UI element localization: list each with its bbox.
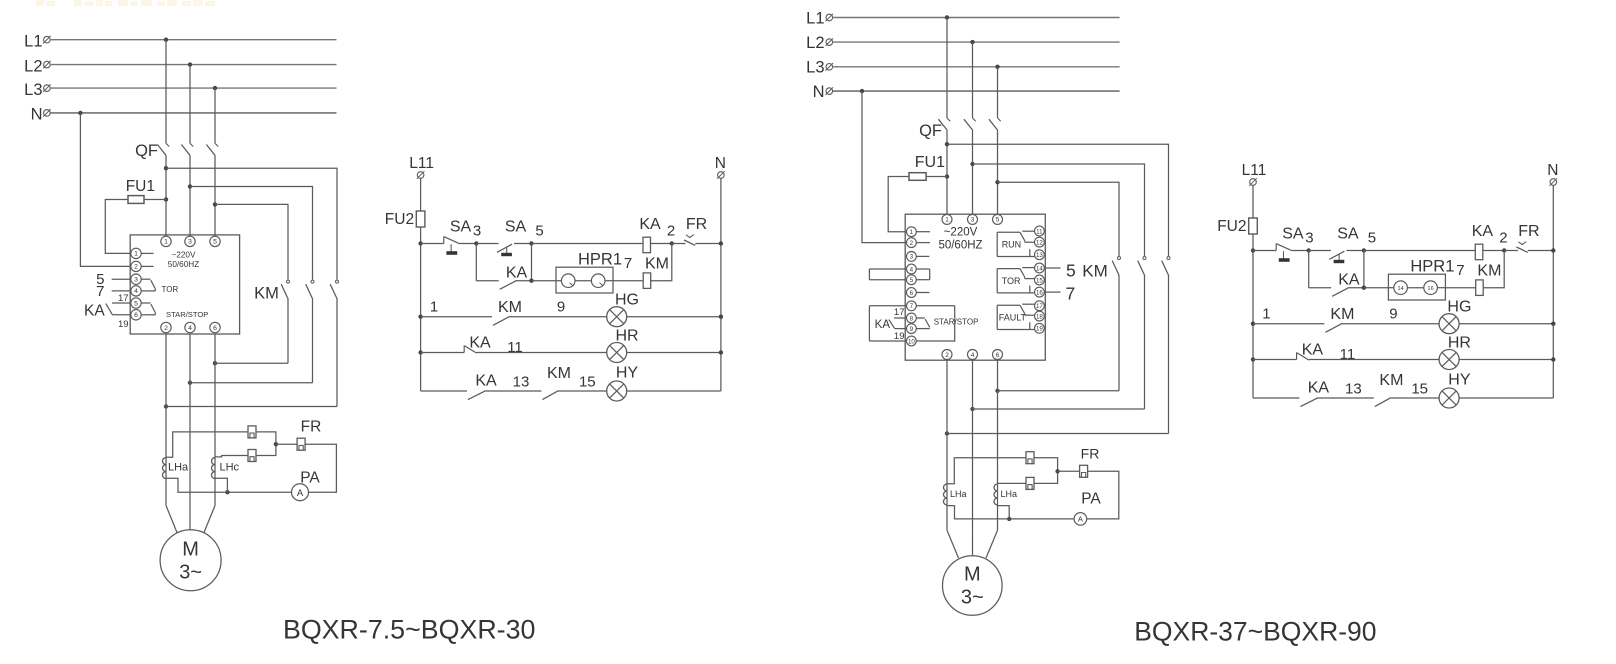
wire SA run to junction (left ctrl)	[514, 243, 532, 245]
svg-text:17: 17	[118, 293, 129, 304]
svg-text:KM: KM	[254, 285, 279, 303]
wire bypass feed phase1 (right)	[947, 144, 1169, 256]
svg-text:M: M	[964, 564, 981, 586]
wire to SA run (left ctrl)	[476, 243, 498, 245]
wire N bus (left)	[50, 112, 337, 114]
svg-text:11: 11	[1340, 346, 1356, 363]
svg-text:L1: L1	[806, 9, 824, 27]
svg-text:KA: KA	[475, 373, 497, 390]
svg-text:LHa: LHa	[168, 462, 189, 474]
jumper loop pins4-5 (right)	[869, 269, 929, 280]
wire right rail (right ctrl)	[1552, 185, 1554, 398]
svg-text:11: 11	[507, 339, 523, 356]
wire junction to KA coil (left ctrl)	[532, 243, 644, 245]
wire starter output phase2 (right)	[972, 360, 974, 530]
wire LHa secondary top (left)	[166, 432, 248, 457]
svg-text:9: 9	[1389, 306, 1397, 323]
starter pin 1 top (right)	[942, 214, 952, 224]
wire PA return (right)	[1009, 518, 1074, 520]
starter pin 6 bottom (right)	[993, 350, 1003, 360]
starter right pin 13 (right)	[1035, 250, 1045, 260]
wire SA to junction (right ctrl)	[1291, 250, 1309, 252]
wire motor lead 1 (right)	[947, 530, 959, 558]
wire QF pole3 to starter pin5 top (left)	[214, 156, 216, 237]
svg-text:HPR1: HPR1	[578, 251, 622, 269]
svg-text:KM: KM	[547, 365, 571, 382]
wire L1 drop to QF (right)	[946, 18, 948, 119]
svg-text:N: N	[813, 83, 825, 101]
svg-text:HY: HY	[616, 365, 639, 382]
wire FU1 to starter pin1 (left)	[105, 200, 131, 254]
svg-text:16: 16	[1036, 289, 1043, 296]
CT LHa coil C (right)	[994, 484, 998, 505]
wire L3 drop to QF (right)	[997, 67, 999, 118]
thermal relay FR element (left)	[297, 438, 305, 450]
starter right pin 19 (right)	[1035, 323, 1045, 333]
svg-text:KA: KA	[1472, 223, 1494, 240]
wire FR to PA loop (right)	[1087, 471, 1119, 519]
svg-text:5: 5	[996, 217, 1000, 224]
junction QF2 bypass (left)	[188, 184, 192, 188]
contactor coil KM (left ctrl)	[643, 273, 651, 289]
starter pin 1 top (left)	[161, 236, 171, 246]
svg-text:KA: KA	[84, 302, 105, 319]
terminal L3 (right)	[826, 63, 834, 71]
soft starter U1 box (left)	[130, 235, 239, 334]
wire FU1 right lead (right)	[926, 176, 947, 178]
lamp HR (left ctrl)	[607, 343, 627, 363]
svg-text:STAR/STOP: STAR/STOP	[934, 317, 979, 326]
junction right rail HR row (left ctrl)	[719, 350, 723, 354]
junction N drop (right)	[860, 89, 864, 93]
junction left rail HG row (right ctrl)	[1251, 322, 1255, 326]
terminal L1 (left)	[43, 36, 51, 44]
terminal N (right ctrl)	[1550, 178, 1558, 186]
svg-text:16: 16	[1428, 286, 1434, 292]
svg-text:KM: KM	[1379, 372, 1403, 389]
wire bypass return phase3 (right)	[998, 390, 1120, 392]
junction CT secondaries (right)	[1055, 469, 1059, 473]
svg-text:2: 2	[667, 223, 675, 240]
relay contact KA NO (left ctrl)	[500, 281, 516, 289]
starter right pin 17 (right)	[1035, 301, 1045, 311]
svg-text:7: 7	[910, 303, 914, 310]
svg-text:FAULT: FAULT	[999, 313, 1027, 323]
junction SA3 (right ctrl)	[1307, 248, 1311, 252]
wire to FR contact (right ctrl)	[1504, 250, 1518, 252]
junction N drop (left)	[78, 111, 82, 115]
relay contact KA pins8-9 (right)	[889, 318, 907, 329]
terminal N (left)	[43, 109, 51, 117]
svg-text:KA: KA	[1338, 272, 1360, 289]
svg-text:7: 7	[1066, 284, 1076, 304]
wire bypass feed phase3 (right)	[998, 182, 1120, 256]
svg-text:FR: FR	[1518, 223, 1539, 240]
soft starter U1 box (right)	[905, 214, 1045, 360]
svg-text:13: 13	[513, 373, 530, 390]
wire rail to KM contact (right ctrl)	[1253, 323, 1324, 325]
junction QF3 bypass (left)	[213, 202, 217, 206]
starter left pin 1 (left)	[131, 248, 141, 258]
wire junction drop SA5 (left ctrl)	[531, 244, 533, 281]
contactor KM pole1 (right)	[1112, 257, 1120, 276]
svg-text:3: 3	[910, 254, 914, 261]
junction FU1 tap (right)	[945, 174, 949, 178]
heater element FR-C (left)	[248, 450, 256, 462]
heater element FR-A (left)	[248, 426, 256, 438]
wire label 7 stub to pin4 (left)	[112, 290, 131, 292]
motor M 3~ (left)	[160, 530, 221, 591]
wire CT-C secondary bottom (right)	[998, 506, 1010, 519]
svg-text:6: 6	[134, 312, 138, 319]
wire to FR contact (left ctrl)	[672, 243, 686, 245]
svg-text:5: 5	[535, 223, 543, 240]
svg-text:3: 3	[188, 239, 192, 246]
starter pin 6 bottom (left)	[210, 322, 220, 332]
junction L2 drop (left)	[188, 62, 192, 66]
svg-text:FU2: FU2	[1217, 218, 1246, 235]
indicator TOR block pins14-16 (right)	[997, 268, 1034, 293]
svg-text:FR: FR	[1081, 446, 1100, 462]
junction right rail HG row (left ctrl)	[719, 315, 723, 319]
starter pin 3 top (left)	[185, 236, 195, 246]
svg-text:HY: HY	[1448, 372, 1471, 389]
starter pin 5 top (left)	[210, 236, 220, 246]
svg-text:5: 5	[1066, 260, 1076, 280]
junction QF2 bypass (right)	[970, 162, 974, 166]
breaker QF pole1 (right)	[938, 118, 950, 130]
wire bypass feed phase3 (left)	[215, 204, 288, 279]
wire motor lead 2 (right)	[972, 530, 974, 556]
wire branch to KA contact (left ctrl)	[476, 280, 498, 282]
junction branch (right ctrl)	[1362, 286, 1366, 290]
svg-text:10: 10	[908, 338, 915, 345]
junction right rail HG row (right ctrl)	[1551, 322, 1555, 326]
starter right pin 12 (right)	[1035, 237, 1045, 247]
starter left pin 3 (left)	[131, 274, 141, 284]
starter left pin 2 (right)	[907, 238, 917, 248]
wire starter output phase3 (left)	[214, 334, 216, 506]
junction bypass phase3 (right)	[995, 389, 999, 393]
svg-text:11: 11	[1036, 228, 1043, 235]
terminal L1 (right)	[826, 14, 834, 22]
wire pin1 inner stub (right)	[916, 231, 930, 233]
svg-text:KM: KM	[1477, 263, 1501, 280]
svg-text:3: 3	[134, 277, 138, 284]
svg-text:KA: KA	[506, 265, 528, 282]
svg-text:7: 7	[96, 283, 104, 300]
svg-text:50/60HZ: 50/60HZ	[938, 239, 982, 251]
svg-text:3: 3	[1305, 230, 1313, 247]
wire heater C to junction (right)	[1034, 471, 1058, 483]
svg-text:M: M	[182, 539, 199, 561]
breaker QF pole2 (left)	[181, 143, 193, 155]
wire KM to lamp HY (left ctrl)	[557, 390, 607, 392]
svg-text:14: 14	[1398, 286, 1404, 292]
wire pin6 inner stub (right)	[916, 292, 929, 294]
junction left rail HR row (left ctrl)	[418, 350, 422, 354]
svg-text:HG: HG	[1447, 299, 1471, 316]
module HPR1 box (right ctrl)	[1388, 274, 1445, 300]
starter left pin 3 (right)	[907, 252, 917, 262]
starter pin 3 top (right)	[968, 214, 978, 224]
starter left pin 10 (right)	[907, 336, 917, 346]
wire KM to lamp HG (left ctrl)	[508, 316, 606, 318]
junction FU1 tap (left)	[164, 197, 168, 201]
motor M 3~ (right)	[943, 556, 1003, 616]
contactor KM pole3 (left)	[330, 280, 338, 299]
wire motor lead 3 (right)	[986, 530, 998, 558]
wire FR to PA loop (left)	[304, 444, 336, 492]
wire pin3 inner stub (right)	[916, 255, 929, 257]
wire L1 bus (left)	[50, 39, 337, 41]
svg-text:6: 6	[213, 325, 217, 332]
selector SA NO contact (right ctrl)	[1329, 251, 1344, 262]
wire lamp HR to rail (right ctrl)	[1459, 359, 1553, 361]
svg-text:19: 19	[894, 331, 905, 342]
svg-text:A: A	[297, 488, 304, 499]
wire pin16 stub out (right)	[1045, 291, 1060, 293]
wire label 5 stub to pin3 (left)	[112, 278, 131, 280]
svg-text:L2: L2	[806, 34, 824, 52]
wire lamp HR to rail (left ctrl)	[627, 352, 721, 354]
junction left rail main row (right ctrl)	[1251, 248, 1255, 252]
svg-text:LHa: LHa	[950, 489, 967, 499]
fuse FU2 body (left ctrl)	[416, 211, 425, 227]
svg-text:5: 5	[213, 239, 217, 246]
wire KA coil to junction (right ctrl)	[1483, 250, 1504, 252]
wire HPR1 to KM coil (right ctrl)	[1445, 287, 1475, 289]
starter pin 2 bottom (right)	[942, 350, 952, 360]
terminal L11 (right ctrl)	[1249, 178, 1257, 186]
wire KM pole3 lower (left)	[336, 299, 338, 406]
wire QF pole2 to starter pin3 top (left)	[189, 156, 191, 237]
svg-text:7: 7	[624, 255, 632, 272]
junction KM-coil branch (left ctrl)	[670, 241, 674, 245]
wire heater C to junction (left)	[256, 444, 276, 455]
wire KM pole2 lower (left)	[312, 299, 314, 382]
wire KA coil to junction (left ctrl)	[651, 243, 672, 245]
starter right pin 16 (right)	[1035, 287, 1045, 297]
wire pin2 inner stub (left)	[141, 265, 153, 267]
fuse FU1 body (right)	[909, 173, 926, 181]
wire bypass feed phase2 (right)	[973, 164, 1145, 256]
svg-text:15: 15	[579, 373, 596, 390]
svg-text:FU1: FU1	[915, 154, 945, 171]
svg-text:FU1: FU1	[126, 178, 155, 195]
svg-text:L2: L2	[24, 57, 42, 75]
svg-text:14: 14	[1036, 265, 1043, 272]
heater element FR-A (right)	[1026, 452, 1034, 464]
wire N drop to starter pin2 (right)	[862, 91, 906, 243]
wire pin1 inner stub (left)	[141, 252, 153, 254]
svg-text:1: 1	[164, 239, 168, 246]
svg-text:15: 15	[1411, 380, 1428, 397]
wire rail to KA contact HY (right ctrl)	[1253, 397, 1299, 399]
wire KA to lamp HR (right ctrl)	[1309, 359, 1439, 361]
contactor aux KM NO contact HY (right ctrl)	[1375, 398, 1390, 406]
svg-text:STAR/STOP: STAR/STOP	[166, 310, 208, 319]
pushbutton SA NC contact (left ctrl)	[444, 236, 459, 254]
junction right rail main row (right ctrl)	[1551, 248, 1555, 252]
svg-text:18: 18	[1036, 313, 1043, 320]
outer loop pins7-10 (right)	[869, 306, 906, 341]
starter pin 4 bottom (left)	[185, 322, 195, 332]
wire junction drop SA5 (right ctrl)	[1363, 251, 1365, 288]
wire lamp HY to rail (left ctrl)	[627, 390, 721, 392]
svg-text:6: 6	[996, 352, 1000, 359]
junction L3 drop (left)	[213, 86, 217, 90]
wire N drop to starter pin2 (left)	[80, 113, 130, 267]
junction bypass phase3 (left)	[213, 361, 217, 365]
decorative faint header text remnant	[36, 0, 215, 6]
junction right rail main row (left ctrl)	[719, 241, 723, 245]
lamp HG (left ctrl)	[607, 307, 627, 327]
junction CT return (right)	[1007, 517, 1011, 521]
wire junction to FR element (left)	[276, 443, 298, 445]
terminal L3 (left)	[43, 84, 51, 92]
svg-text:5: 5	[910, 277, 914, 284]
relay FR NC contact (left ctrl)	[684, 235, 695, 246]
svg-text:A: A	[1078, 515, 1083, 524]
wire HPR1 to KM coil (left ctrl)	[613, 280, 643, 282]
wire QF pole1 to starter top (right)	[946, 130, 948, 214]
contact STAR/STOP internal pins8-9 (right)	[916, 318, 930, 329]
junction CT return (left)	[225, 490, 229, 494]
starter left pin 4 (right)	[907, 264, 917, 274]
svg-text:N: N	[1547, 162, 1558, 179]
contactor KM pole2 (right)	[1138, 257, 1146, 276]
svg-text:FR: FR	[686, 216, 707, 233]
wire L2 bus (left)	[50, 64, 337, 66]
wire starter output phase3 (right)	[997, 360, 999, 530]
wire bypass return phase1 (right)	[947, 433, 1169, 435]
wire KM coil up to junction (left ctrl)	[651, 244, 672, 281]
svg-text:1: 1	[430, 299, 438, 316]
wire starter output phase1 (right)	[946, 360, 948, 530]
junction left rail main row (left ctrl)	[418, 241, 422, 245]
wire QF pole1 to starter pin1 top (left)	[165, 156, 167, 237]
starter pin 4 bottom (right)	[968, 350, 978, 360]
svg-text:KM: KM	[645, 256, 669, 273]
junction KM-coil branch (right ctrl)	[1502, 248, 1506, 252]
wire pin2 inner stub (right)	[916, 242, 930, 244]
svg-text:2: 2	[134, 264, 138, 271]
wire FU1 to starter pin1 (right)	[888, 177, 909, 232]
wire bypass return phase1 (left)	[166, 406, 337, 408]
wire KM coil up to junction (right ctrl)	[1483, 251, 1504, 288]
wire branch to HPR1 (right ctrl)	[1364, 287, 1389, 289]
svg-text:LHa: LHa	[1001, 489, 1018, 499]
svg-text:KM: KM	[1082, 261, 1108, 280]
svg-text:13: 13	[1036, 252, 1043, 259]
wire branch to HPR1 (left ctrl)	[532, 280, 557, 282]
svg-text:1: 1	[910, 229, 914, 236]
svg-text:FU2: FU2	[385, 211, 414, 228]
svg-text:BQXR-37~BQXR-90: BQXR-37~BQXR-90	[1134, 617, 1376, 647]
wire KM pole1 lower (right)	[1118, 276, 1120, 391]
relay aux KA NO contact HY (left ctrl)	[468, 391, 485, 399]
wire CT-C secondary top (right)	[998, 482, 1027, 484]
terminal N (right)	[826, 87, 834, 95]
wire PA return (left)	[227, 491, 291, 493]
wire KA contact to junction (left ctrl)	[515, 280, 531, 282]
contactor KM pole2 (left)	[306, 280, 314, 299]
contactor aux KM NO contact HY (left ctrl)	[542, 391, 557, 399]
contactor KM pole3 (right)	[1162, 257, 1170, 276]
lamp HY (right ctrl)	[1439, 388, 1459, 408]
wire KA contact to junction (right ctrl)	[1348, 287, 1364, 289]
contact TOR internal pins3-4 (left)	[141, 279, 155, 291]
svg-text:3~: 3~	[961, 587, 984, 609]
starter right pin 15 (right)	[1035, 275, 1045, 285]
junction QF1 bypass (left)	[164, 166, 168, 170]
wire junction to FR element (right)	[1058, 470, 1080, 472]
wire N bus (right)	[832, 90, 1119, 92]
wire starter output phase2 (left)	[189, 334, 191, 506]
svg-text:SA: SA	[1337, 226, 1359, 243]
lamp HY (left ctrl)	[607, 381, 627, 401]
heater element FR-C (right)	[1026, 477, 1034, 489]
svg-text:15: 15	[1036, 277, 1043, 284]
junction bypass phase2 (left)	[188, 381, 192, 385]
svg-text:HR: HR	[615, 328, 638, 345]
starter left pin 6 (right)	[907, 288, 917, 298]
wire branch to KA contact (right ctrl)	[1309, 287, 1331, 289]
CT LHa coil (left)	[163, 458, 167, 479]
svg-text:3~: 3~	[179, 562, 202, 584]
contactor coil KM (right ctrl)	[1476, 280, 1484, 296]
starter pin 5 top (right)	[993, 214, 1003, 224]
wire bypass return phase2 (right)	[973, 408, 1145, 410]
starter left pin 9 (right)	[907, 324, 917, 334]
junction L3 drop (right)	[995, 65, 999, 69]
wire KM to lamp HY (right ctrl)	[1389, 397, 1439, 399]
wire motor lead 2 (left)	[189, 506, 191, 530]
wire bypass return phase2 (left)	[190, 382, 313, 384]
wire FU1 right lead (left)	[144, 199, 166, 201]
contactor aux KM NO contact (right ctrl)	[1325, 324, 1341, 332]
svg-text:1: 1	[134, 251, 138, 258]
wire L1 bus (right)	[832, 17, 1119, 19]
svg-text:2: 2	[164, 325, 168, 332]
wire heater A to junction (right)	[1034, 458, 1058, 472]
junction branch (left ctrl)	[529, 279, 533, 283]
wire LHa secondary bottom (left)	[166, 478, 227, 492]
svg-text:HG: HG	[615, 292, 639, 309]
svg-text:N: N	[31, 106, 43, 124]
starter left pin 1 (right)	[907, 227, 917, 237]
svg-text:4: 4	[134, 288, 138, 295]
CT LHa coil A (right)	[944, 484, 947, 505]
svg-text:19: 19	[118, 319, 129, 330]
wire FR to right rail (left ctrl)	[695, 243, 721, 245]
breaker QF pole3 (right)	[989, 118, 1001, 130]
wire bypass return phase3 (left)	[215, 362, 288, 364]
svg-text:7: 7	[1456, 262, 1464, 279]
starter left pin 6 (left)	[131, 310, 141, 320]
wire QF pole2 to starter top (right)	[972, 130, 974, 214]
svg-text:SA: SA	[1282, 226, 1304, 243]
starter right pin 11 (right)	[1035, 226, 1045, 236]
svg-text:3: 3	[473, 223, 481, 240]
wire LHc secondary bottom (left)	[215, 478, 227, 492]
svg-text:TOR: TOR	[162, 285, 179, 294]
starter left pin 5 (right)	[907, 275, 917, 285]
svg-text:KA: KA	[639, 216, 661, 233]
svg-text:LHc: LHc	[220, 462, 240, 474]
wire rail to KA contact HR (right ctrl)	[1253, 359, 1297, 361]
